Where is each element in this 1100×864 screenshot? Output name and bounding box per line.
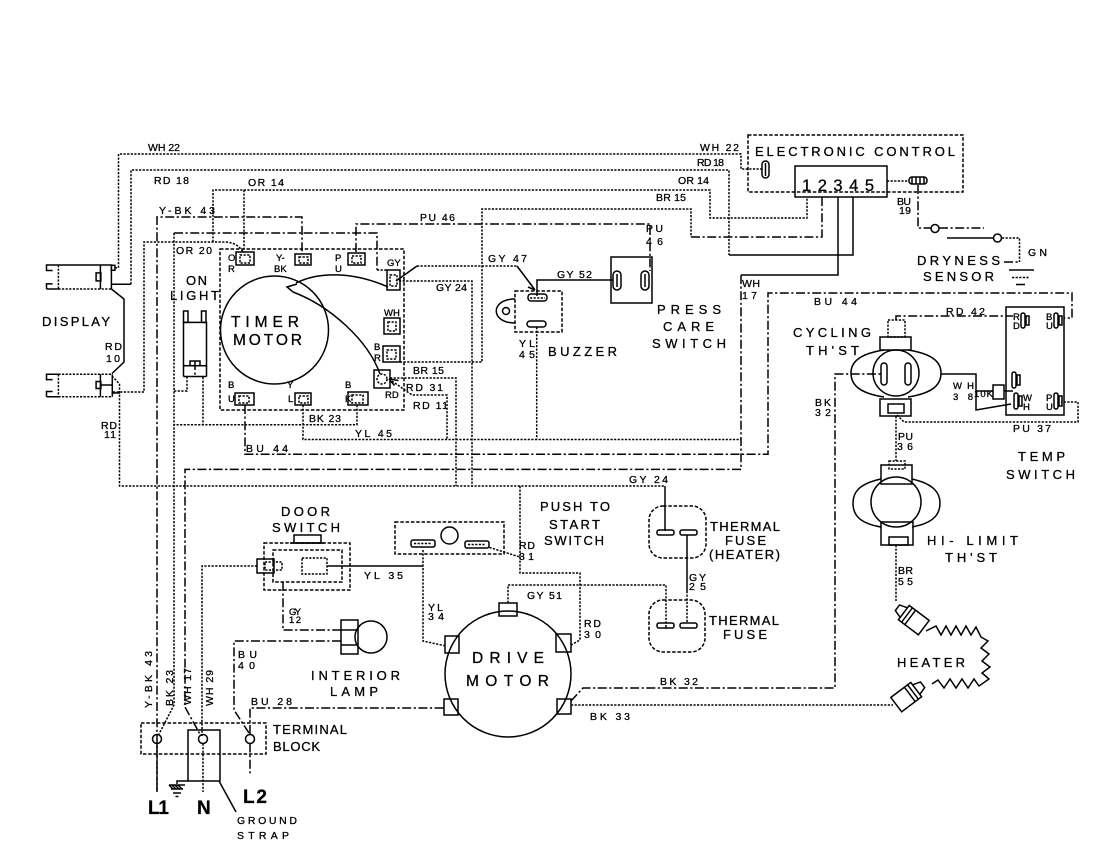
svg-text:BK: BK — [274, 264, 287, 275]
svg-text:R: R — [228, 264, 235, 275]
svg-text:OR 14: OR 14 — [248, 177, 284, 189]
heater — [891, 601, 990, 712]
svg-text:RD: RD — [105, 341, 122, 353]
wire BR 15 — [400, 192, 822, 377]
svg-text:PU 46: PU 46 — [420, 212, 455, 224]
thermal fuse (heater) — [649, 506, 780, 562]
wire WH 38 — [941, 374, 1013, 410]
svg-text:TH'ST: TH'ST — [945, 550, 997, 565]
timer terminal Y/L — [287, 380, 311, 405]
svg-text:DRYNESS: DRYNESS — [917, 253, 1000, 268]
EC connector stub — [909, 177, 927, 184]
drive motor — [444, 603, 571, 737]
svg-text:THERMAL: THERMAL — [710, 519, 780, 534]
svg-text:BU 28: BU 28 — [251, 696, 292, 708]
svg-text:BLOCK: BLOCK — [273, 739, 320, 754]
svg-text:PU 37: PU 37 — [1013, 423, 1051, 435]
svg-text:BR 15: BR 15 — [656, 192, 686, 204]
cycling thermostat — [793, 320, 941, 416]
wire BK 32 — [571, 374, 881, 701]
wire BU 28 — [250, 696, 446, 734]
timer terminal RD — [374, 370, 399, 401]
press care switch — [611, 257, 726, 351]
svg-text:19: 19 — [899, 205, 911, 217]
interior lamp — [311, 620, 400, 699]
svg-text:BU 44: BU 44 — [814, 296, 857, 308]
display — [42, 265, 131, 397]
svg-text:WH: WH — [384, 308, 400, 319]
svg-text:DRIVE: DRIVE — [472, 650, 544, 667]
timer terminal P/U — [335, 253, 365, 275]
svg-text:GY 24: GY 24 — [629, 474, 668, 486]
wire GY 52 — [537, 269, 613, 296]
svg-text:B: B — [228, 380, 234, 391]
wire WH 17 — [182, 197, 838, 736]
wire Y-BK 43 — [143, 205, 302, 792]
wire BR 55 — [896, 545, 913, 601]
wire OR 20 — [113, 242, 243, 392]
svg-text:Y: Y — [287, 380, 294, 391]
svg-text:OR 20: OR 20 — [176, 245, 212, 257]
hi-limit thermostat — [853, 461, 1018, 565]
ground strap — [188, 730, 297, 842]
temp switch — [1006, 307, 1075, 482]
svg-text:RD 42: RD 42 — [946, 306, 985, 318]
svg-text:B: B — [374, 342, 380, 353]
wire BU 40 — [234, 641, 341, 733]
node N — [197, 735, 211, 820]
svg-text:GY 51: GY 51 — [527, 590, 562, 602]
svg-text:BR 15: BR 15 — [413, 365, 444, 377]
wire BK 23 — [158, 233, 357, 736]
svg-text:H: H — [1023, 402, 1030, 413]
wire RD 11 (timer side) — [389, 379, 448, 440]
svg-text:BU 44: BU 44 — [246, 443, 288, 455]
svg-text:MOTOR: MOTOR — [233, 332, 302, 349]
wire PU 36 — [896, 416, 913, 461]
svg-text:B: B — [345, 380, 351, 391]
wire GY 51 — [508, 585, 666, 629]
label RD 10 — [105, 341, 122, 365]
svg-text:LAMP: LAMP — [330, 684, 378, 699]
wire PU 46 — [356, 212, 663, 271]
svg-text:RD 18: RD 18 — [697, 157, 724, 169]
svg-text:BK 23: BK 23 — [164, 670, 176, 706]
wire RD 30 — [520, 557, 601, 645]
svg-text:RD 31: RD 31 — [406, 382, 443, 394]
timer terminal B/U — [228, 380, 254, 405]
svg-text:GY: GY — [387, 258, 401, 269]
svg-text:RD 18: RD 18 — [154, 175, 189, 187]
svg-text:BK 23: BK 23 — [309, 413, 341, 425]
timer terminal B/R — [374, 342, 400, 364]
svg-text:12: 12 — [289, 615, 301, 626]
svg-text:O: O — [228, 253, 235, 264]
svg-text:WH: WH — [742, 278, 760, 290]
timer motor — [220, 249, 404, 410]
svg-text:TEMP: TEMP — [1018, 449, 1065, 464]
svg-text:RD: RD — [385, 390, 399, 401]
svg-text:FUSE: FUSE — [725, 533, 766, 548]
ground GN — [1009, 247, 1047, 285]
svg-text:P: P — [335, 253, 341, 264]
svg-text:L1: L1 — [148, 798, 169, 819]
svg-text:INTERIOR: INTERIOR — [311, 668, 400, 683]
svg-text:BK 32: BK 32 — [660, 676, 698, 688]
thermal fuse — [649, 600, 779, 652]
indicator lamp ON LIGHT — [170, 273, 219, 391]
svg-text:10K: 10K — [974, 389, 994, 400]
wire YL 45 — [303, 327, 741, 440]
svg-text:L: L — [288, 394, 293, 405]
svg-text:D: D — [1013, 321, 1020, 332]
wire RD 18 — [131, 157, 853, 284]
timer terminal WH — [384, 308, 400, 334]
timer terminal B/K — [345, 380, 368, 405]
wire WH 29 — [202, 566, 257, 736]
wire YL 35 / YL 34 — [327, 550, 446, 646]
wire BU 44 — [245, 293, 1072, 455]
wire GY 12 — [283, 582, 341, 630]
svg-text:GY 52: GY 52 — [557, 269, 592, 281]
svg-text:YL 35: YL 35 — [364, 570, 403, 582]
svg-text:PUSH TO: PUSH TO — [540, 499, 610, 514]
buzzer — [496, 291, 617, 359]
electronic control — [748, 135, 963, 192]
wire BU 19 — [887, 181, 931, 228]
svg-text:Y-: Y- — [276, 253, 285, 264]
wire WH 22 — [115, 142, 762, 268]
svg-text:K: K — [345, 394, 352, 405]
svg-text:THERMAL: THERMAL — [709, 613, 779, 628]
ground symbol — [169, 781, 188, 797]
svg-text:GY 24: GY 24 — [436, 282, 467, 294]
svg-text:TERMINAL: TERMINAL — [273, 722, 347, 737]
svg-text:WH 17: WH 17 — [182, 668, 194, 705]
dryness sensor — [917, 225, 1020, 285]
timer terminal Y-BK — [274, 253, 311, 275]
svg-text:N: N — [197, 798, 211, 819]
node L2 — [243, 735, 267, 809]
svg-text:U: U — [1046, 402, 1053, 413]
wire PU 37 — [897, 402, 1078, 435]
svg-text:YL 45: YL 45 — [355, 428, 392, 440]
wire GY 25 — [687, 535, 706, 623]
wire GY 47 — [396, 253, 535, 290]
svg-text:11: 11 — [104, 429, 116, 441]
svg-text:RD 11: RD 11 — [413, 400, 448, 412]
push to start switch — [395, 499, 610, 554]
timer terminal O/R — [228, 252, 254, 275]
svg-text:WH 29: WH 29 — [204, 670, 216, 706]
svg-text:(HEATER): (HEATER) — [709, 547, 780, 562]
door switch — [257, 504, 350, 590]
node L1 — [148, 735, 169, 820]
terminal block — [141, 722, 347, 754]
svg-text:U: U — [228, 394, 235, 405]
wire RD 42 — [896, 306, 1013, 320]
svg-text:U: U — [335, 264, 342, 275]
wire on-light to timer GY — [174, 233, 387, 270]
svg-text:HI- LIMIT: HI- LIMIT — [927, 533, 1018, 548]
timer terminal GY — [387, 258, 401, 290]
svg-text:1 2 3 4 5: 1 2 3 4 5 — [802, 177, 874, 195]
svg-text:U: U — [1046, 321, 1053, 332]
svg-text:OR 14: OR 14 — [678, 175, 709, 187]
svg-text:START: START — [549, 517, 600, 532]
wire BK 33 — [571, 705, 893, 723]
svg-text:WH 22: WH 22 — [148, 142, 180, 154]
wire RD 31 — [390, 378, 535, 563]
svg-text:ELECTRONIC CONTROL: ELECTRONIC CONTROL — [755, 144, 955, 159]
pins 1 2 3 4 5 — [795, 166, 887, 197]
svg-text:PU: PU — [646, 223, 663, 235]
wire RD 11 / GY 24 — [101, 281, 668, 531]
wire OR 14 — [213, 175, 807, 252]
svg-text:GY 47: GY 47 — [488, 253, 527, 265]
resistor 10K — [993, 385, 1004, 399]
svg-text:BK 33: BK 33 — [590, 711, 630, 723]
svg-text:R: R — [374, 353, 381, 364]
